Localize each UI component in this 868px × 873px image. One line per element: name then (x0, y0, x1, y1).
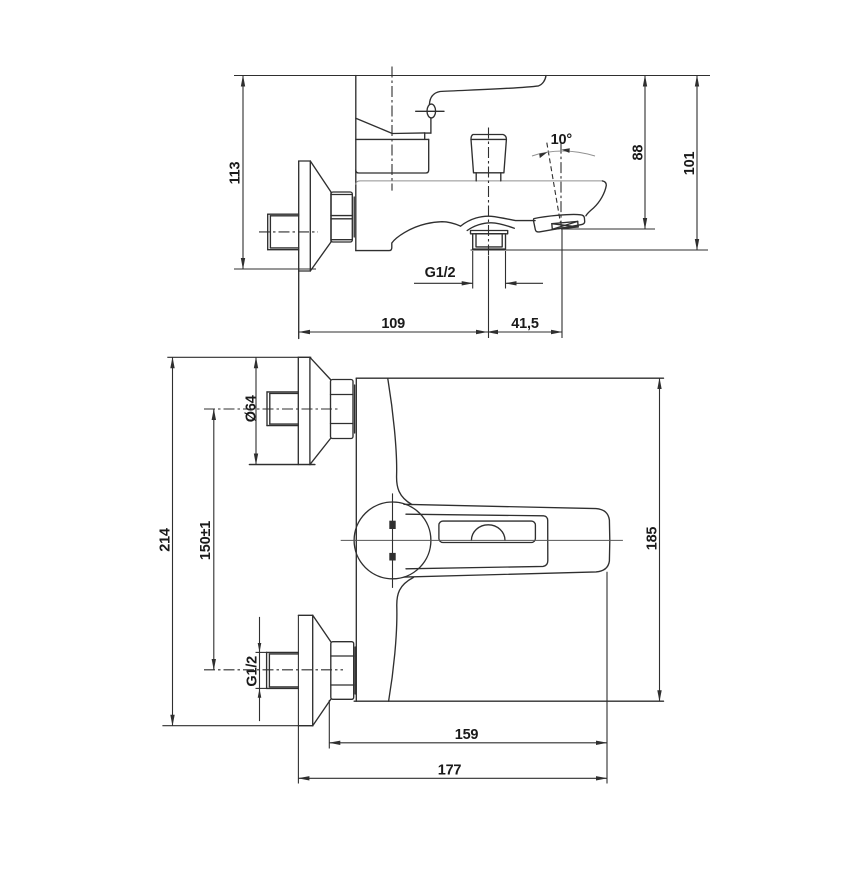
svg-text:88: 88 (631, 145, 647, 161)
svg-text:185: 185 (645, 527, 661, 551)
svg-text:177: 177 (438, 763, 462, 779)
svg-text:10°: 10° (551, 132, 573, 148)
svg-text:G1/2: G1/2 (245, 656, 261, 687)
svg-text:113: 113 (228, 161, 244, 184)
svg-text:41,5: 41,5 (511, 316, 539, 332)
svg-text:109: 109 (381, 316, 405, 332)
svg-text:G1/2: G1/2 (425, 265, 456, 281)
svg-text:214: 214 (158, 528, 174, 552)
svg-text:150±1: 150±1 (198, 521, 214, 560)
svg-text:101: 101 (682, 151, 698, 175)
svg-text:159: 159 (455, 727, 479, 743)
